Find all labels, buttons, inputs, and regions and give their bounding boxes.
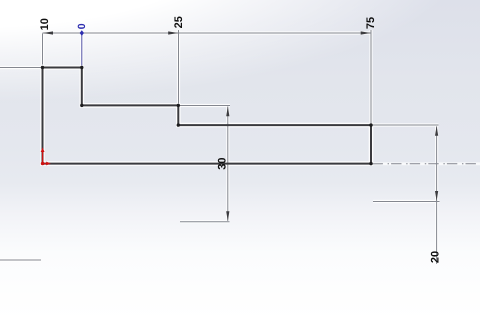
svg-text:25: 25 [173,16,185,28]
svg-text:20: 20 [429,251,441,263]
svg-text:75: 75 [365,17,377,29]
svg-text:0: 0 [76,23,88,29]
svg-text:30: 30 [217,157,229,169]
svg-text:10: 10 [39,18,51,30]
